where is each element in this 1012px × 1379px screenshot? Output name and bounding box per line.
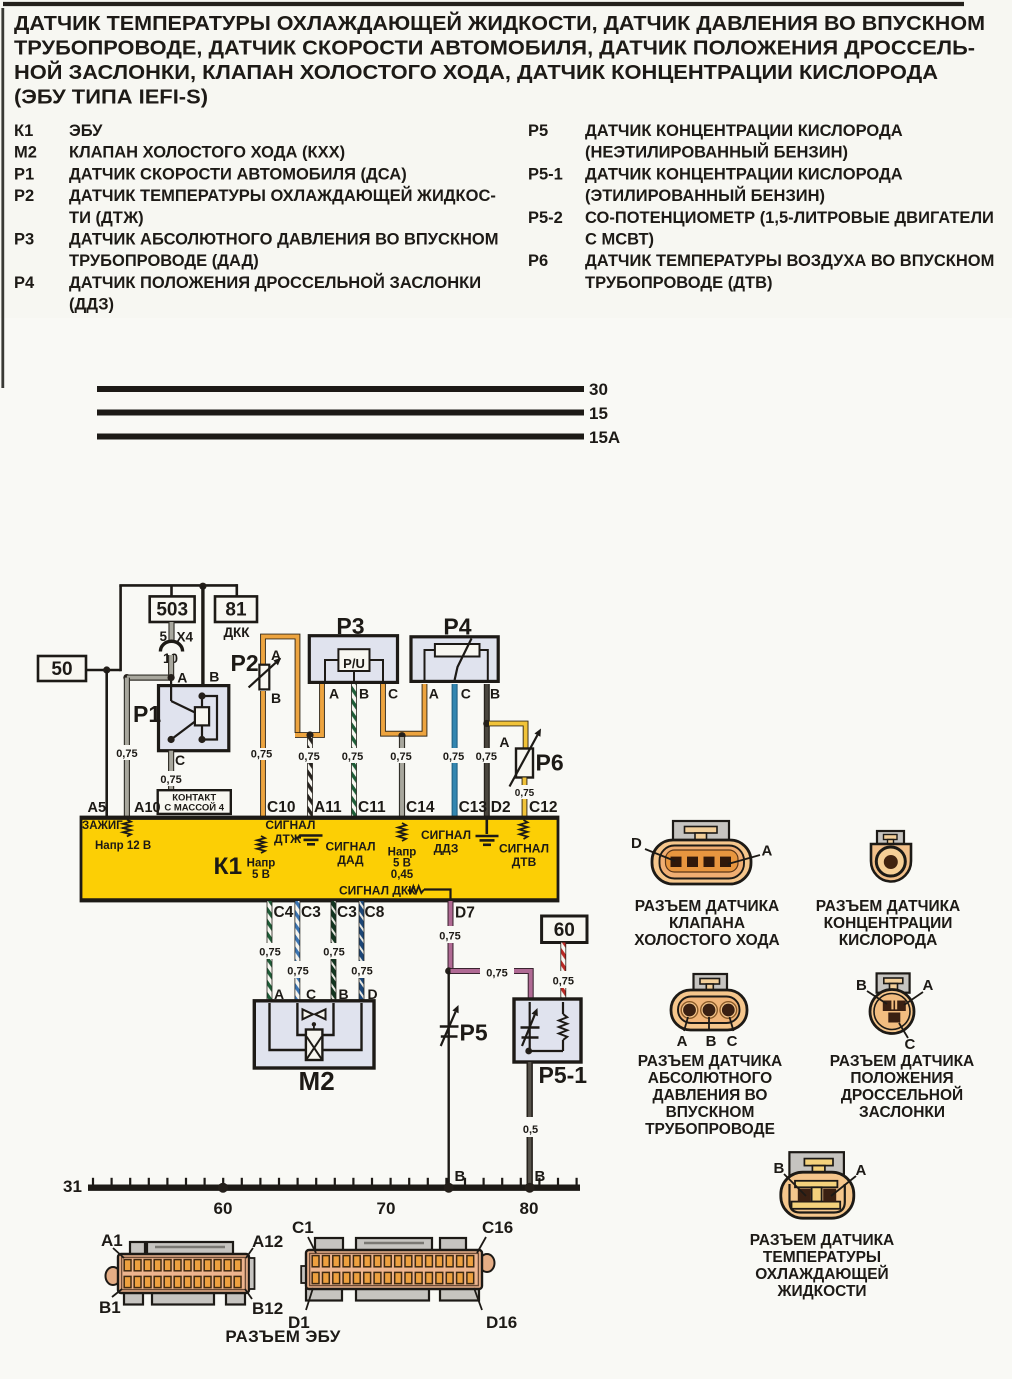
svg-text:C: C — [175, 752, 185, 768]
title block top border — [3, 2, 964, 6]
svg-text:81: 81 — [225, 600, 247, 621]
throttle position sensor P4 box — [411, 614, 498, 682]
wire A10 horizontal segment — [127, 674, 171, 680]
svg-text:A: A — [677, 1033, 688, 1050]
ECU pin labels below K1 — [274, 904, 475, 922]
ECU connector A/B block — [106, 1242, 250, 1305]
svg-text:B: B — [271, 690, 281, 706]
svg-text:B: B — [455, 1168, 466, 1185]
svg-text:15А: 15А — [589, 428, 620, 447]
svg-text:0,75: 0,75 — [439, 931, 460, 943]
svg-text:КИСЛОРОДА: КИСЛОРОДА — [839, 932, 938, 949]
svg-text:B12: B12 — [252, 1299, 283, 1318]
bus junction dot at 60 — [218, 1183, 228, 1193]
P1 internal transistor symbol — [168, 681, 218, 743]
svg-text:B: B — [359, 686, 369, 702]
svg-text:0,75: 0,75 — [515, 788, 535, 799]
idle air valve M2 box — [254, 1001, 374, 1096]
svg-text:ТРУБОПРОВОДЕ (ДТВ): ТРУБОПРОВОДЕ (ДТВ) — [585, 274, 773, 292]
wire C3 dark green striped (gap for label) — [331, 901, 337, 943]
legend right column — [528, 122, 994, 292]
svg-text:C: C — [905, 1036, 916, 1053]
MAP sensor connector pin labels — [677, 1033, 738, 1050]
wire A10 vertical to ECU (gap for label) — [124, 678, 130, 745]
P1 pin A dot — [168, 674, 175, 681]
svg-text:РАЗЪЕМ ДАТЧИКА: РАЗЪЕМ ДАТЧИКА — [830, 1053, 975, 1070]
wire C11 green striped from P3 pin B (gap for label) — [351, 684, 357, 748]
svg-text:ДАВЛЕНИЯ ВО: ДАВЛЕНИЯ ВО — [653, 1087, 768, 1104]
svg-text:0,75: 0,75 — [342, 751, 363, 763]
svg-text:Р5: Р5 — [528, 122, 548, 140]
svg-text:КЛАПАНА: КЛАПАНА — [669, 915, 745, 932]
wire D7 violet (gap for label) — [448, 901, 454, 926]
ECU connector A/B side tab — [249, 1258, 255, 1289]
svg-text:0,75: 0,75 — [287, 966, 308, 978]
svg-text:0,75: 0,75 — [116, 748, 137, 760]
ECU connector C/D side tab — [301, 1266, 306, 1283]
svg-text:Р5-1: Р5-1 — [528, 165, 563, 183]
ECU pin labels top row — [88, 799, 558, 816]
wire C10 orange upper run — [260, 760, 266, 817]
K1 internal resistor on C12 — [520, 820, 528, 839]
svg-text:К1: К1 — [214, 853, 243, 880]
svg-text:Р4: Р4 — [443, 614, 471, 640]
svg-text:C: C — [306, 986, 316, 1002]
svg-text:C1: C1 — [292, 1218, 314, 1237]
svg-text:0,75: 0,75 — [390, 751, 411, 763]
K1 internal resistor on C10 — [257, 836, 265, 853]
node A11 junction dot — [306, 731, 313, 738]
svg-text:ВПУСКНОМ: ВПУСКНОМ — [666, 1104, 755, 1121]
svg-text:B: B — [774, 1160, 785, 1177]
svg-text:ДТВ: ДТВ — [512, 855, 537, 869]
svg-text:Р3: Р3 — [336, 613, 364, 639]
wire P5 vertical thin — [448, 971, 450, 1185]
oxygen sensor connector caption — [816, 898, 961, 949]
K1 internal wire to D7 — [424, 890, 451, 901]
svg-text:ТРУБОПРОВОДЕ, ДАТЧИК СКОРОСТИ: ТРУБОПРОВОДЕ, ДАТЧИК СКОРОСТИ АВТОМОБИЛЯ… — [14, 37, 975, 60]
svg-text:СИГНАЛ: СИГНАЛ — [265, 818, 315, 832]
svg-text:РАЗЪЕМ ДАТЧИКА: РАЗЪЕМ ДАТЧИКА — [635, 898, 780, 915]
svg-text:A1: A1 — [101, 1231, 123, 1250]
svg-text:Напр 12 В: Напр 12 В — [95, 840, 151, 852]
svg-text:A: A — [762, 843, 773, 860]
svg-text:С10: С10 — [267, 799, 295, 816]
bus 31 tick marks — [93, 1178, 577, 1185]
svg-text:А10: А10 — [134, 800, 161, 816]
node D7 to P5 junction dot — [445, 967, 452, 974]
svg-text:НОЙ ЗАСЛОНКИ, КЛАПАН ХОЛОСТОГО: НОЙ ЗАСЛОНКИ, КЛАПАН ХОЛОСТОГО ХОДА, ДАТ… — [14, 60, 938, 84]
svg-text:ТЕМПЕРАТУРЫ: ТЕМПЕРАТУРЫ — [763, 1249, 881, 1266]
svg-text:0,75: 0,75 — [443, 751, 464, 763]
svg-text:СИГНАЛ: СИГНАЛ — [421, 828, 471, 842]
svg-text:Р5-2: Р5-2 — [528, 209, 563, 227]
svg-text:C: C — [388, 686, 398, 702]
svg-text:ДАТЧИК ПОЛОЖЕНИЯ ДРОССЕЛЬНОЙ З: ДАТЧИК ПОЛОЖЕНИЯ ДРОССЕЛЬНОЙ ЗАСЛОНКИ — [69, 273, 481, 292]
svg-text:P/U: P/U — [343, 656, 365, 671]
wire B of P1 sensor — [201, 585, 204, 686]
svg-text:D16: D16 — [486, 1313, 517, 1332]
svg-text:АБСОЛЮТНОГО: АБСОЛЮТНОГО — [648, 1070, 772, 1087]
wire from fuse 50 to node A5 — [86, 669, 121, 672]
svg-text:СИГНАЛ ДКК: СИГНАЛ ДКК — [339, 884, 416, 898]
terminal box 50 — [38, 656, 86, 681]
MAP sensor connector caption — [638, 1053, 783, 1138]
ECU connector A/B leader lines and labels — [99, 1231, 283, 1318]
svg-text:СИГНАЛ: СИГНАЛ — [326, 840, 376, 854]
svg-text:ТРУБОПРОВОДЕ: ТРУБОПРОВОДЕ — [645, 1121, 775, 1138]
svg-text:60: 60 — [554, 920, 575, 941]
svg-text:РАЗЪЕМ ДАТЧИКА: РАЗЪЕМ ДАТЧИКА — [816, 898, 961, 915]
P4 internal potentiometer — [425, 639, 488, 681]
oxygen sensor connector drawing — [871, 831, 911, 882]
M2 internal valve symbol — [303, 1009, 326, 1060]
legend left column — [14, 122, 499, 314]
svg-text:ДТЖ: ДТЖ — [274, 832, 301, 846]
svg-text:ДРОССЕЛЬНОЙ: ДРОССЕЛЬНОЙ — [841, 1086, 963, 1104]
svg-text:503: 503 — [156, 600, 188, 621]
svg-text:B: B — [706, 1033, 717, 1050]
svg-text:B: B — [490, 686, 500, 702]
svg-text:С4: С4 — [274, 904, 294, 921]
svg-text:С11: С11 — [358, 799, 386, 816]
svg-text:B: B — [209, 669, 219, 685]
svg-text:D: D — [631, 835, 642, 852]
wire from P5-1 to bus 31 (gap for label) — [527, 1062, 533, 1117]
svg-text:С12: С12 — [529, 799, 557, 816]
svg-text:A: A — [177, 670, 187, 686]
air temp sensor P6 (variable resistor) — [499, 729, 563, 787]
svg-text:0,75: 0,75 — [553, 976, 574, 988]
svg-text:0,75: 0,75 — [251, 749, 272, 761]
coolant temp connector caption — [750, 1232, 895, 1300]
svg-text:A: A — [329, 686, 339, 702]
svg-text:С МАССОЙ 4: С МАССОЙ 4 — [164, 802, 224, 814]
svg-text:0,75: 0,75 — [351, 966, 372, 978]
oxygen sensor P5-1 box — [514, 999, 587, 1088]
wire C13 teal from P4 pin C (gap for label) — [452, 684, 458, 748]
top rail wire — [119, 584, 237, 587]
svg-text:A: A — [856, 1162, 867, 1179]
svg-text:15: 15 — [589, 404, 608, 423]
wire D2 dark from P4 pin B (gap for label) — [484, 684, 490, 748]
bus junction dot at P5-1 — [525, 1183, 535, 1193]
ground contact box KONTAKT S MASSOY 4 — [158, 790, 231, 814]
svg-text:0,75: 0,75 — [298, 751, 319, 763]
svg-text:СИГНАЛ: СИГНАЛ — [499, 842, 549, 856]
bus bar 15 — [97, 410, 584, 416]
svg-text:5 В: 5 В — [393, 858, 411, 870]
svg-text:ДАТЧИК ТЕМПЕРАТУРЫ ОХЛАЖДАЮЩЕЙ: ДАТЧИК ТЕМПЕРАТУРЫ ОХЛАЖДАЮЩЕЙ ЖИДКОСТИ,… — [14, 11, 985, 35]
svg-text:ДАД: ДАД — [337, 853, 364, 867]
bus junction dot at P5 — [444, 1183, 454, 1193]
svg-text:ДАТЧИК АБСОЛЮТНОГО ДАВЛЕНИЯ ВО: ДАТЧИК АБСОЛЮТНОГО ДАВЛЕНИЯ ВО ВПУСКНОМ — [69, 231, 499, 249]
wire A11 striped to ECU (gap for label) — [307, 737, 313, 748]
svg-text:Р3: Р3 — [14, 231, 34, 249]
svg-text:B: B — [339, 986, 349, 1002]
svg-text:(ЭТИЛИРОВАННЫЙ БЕНЗИН): (ЭТИЛИРОВАННЫЙ БЕНЗИН) — [585, 186, 825, 205]
svg-text:0,75: 0,75 — [323, 947, 344, 959]
svg-text:С8: С8 — [365, 904, 385, 921]
svg-text:С3: С3 — [337, 904, 357, 921]
P3 internal P/U unit — [325, 649, 383, 682]
svg-text:A: A — [923, 977, 934, 994]
node A5 junction dot — [103, 666, 110, 673]
svg-text:A: A — [274, 986, 284, 1002]
svg-text:ЗАЖИГ.: ЗАЖИГ. — [82, 820, 124, 832]
svg-text:0,75: 0,75 — [259, 947, 280, 959]
svg-text:B: B — [856, 977, 867, 994]
page left edge line — [1, 8, 4, 388]
svg-text:30: 30 — [589, 380, 608, 399]
MAP sensor connector drawing — [671, 974, 747, 1031]
svg-text:ДАТЧИК ТЕМПЕРАТУРЫ ВОЗДУХА ВО: ДАТЧИК ТЕМПЕРАТУРЫ ВОЗДУХА ВО ВПУСКНОМ — [585, 252, 994, 270]
svg-text:C: C — [727, 1033, 738, 1050]
M2 pin letters — [274, 986, 378, 1002]
P5-1 internal resistor element — [529, 1002, 567, 1051]
svg-text:D2: D2 — [491, 799, 511, 816]
svg-text:Р4: Р4 — [14, 274, 35, 292]
svg-text:РАЗЪЕМ ЭБУ: РАЗЪЕМ ЭБУ — [225, 1327, 340, 1346]
idle valve connector drawing — [652, 821, 751, 884]
ECU K1 box — [81, 817, 558, 901]
svg-text:ДКК: ДКК — [223, 625, 250, 640]
wire C from P1 (gap for label) — [168, 751, 174, 771]
svg-text:ДАТЧИК КОНЦЕНТРАЦИИ КИСЛОРОДА: ДАТЧИК КОНЦЕНТРАЦИИ КИСЛОРОДА — [585, 165, 903, 183]
svg-text:A: A — [271, 647, 281, 663]
svg-text:A: A — [499, 734, 509, 750]
svg-text:С14: С14 — [406, 799, 435, 816]
svg-text:С3: С3 — [301, 904, 321, 921]
wire C8 dark blue striped (gap for label) — [359, 901, 365, 961]
svg-text:С13: С13 — [459, 799, 488, 816]
wire C3 blue striped (gap for label) — [294, 901, 300, 961]
svg-text:Р5-1: Р5-1 — [539, 1062, 588, 1088]
svg-text:А11: А11 — [314, 799, 342, 816]
svg-text:ОХЛАЖДАЮЩЕЙ: ОХЛАЖДАЮЩЕЙ — [755, 1265, 888, 1283]
svg-text:Р2: Р2 — [231, 650, 259, 676]
svg-text:D7: D7 — [455, 905, 475, 922]
svg-text:Напр: Напр — [247, 858, 276, 870]
title text — [14, 11, 985, 109]
svg-text:A: A — [429, 686, 439, 702]
wire from node D2 to P6 (yellow) — [489, 724, 526, 750]
svg-text:ПОЛОЖЕНИЯ: ПОЛОЖЕНИЯ — [850, 1070, 953, 1087]
svg-text:0,45: 0,45 — [391, 869, 414, 881]
svg-text:70: 70 — [377, 1199, 396, 1218]
svg-text:ДАТЧИК КОНЦЕНТРАЦИИ КИСЛОРОДА: ДАТЧИК КОНЦЕНТРАЦИИ КИСЛОРОДА — [585, 122, 903, 140]
svg-text:ТРУБОПРОВОДЕ (ДАД): ТРУБОПРОВОДЕ (ДАД) — [69, 252, 259, 270]
ECU connector C/D leader lines and labels — [288, 1218, 517, 1332]
M2 internal winding circuit — [270, 1003, 362, 1050]
svg-text:0,75: 0,75 — [476, 751, 497, 763]
bus 31 bar — [88, 1184, 580, 1190]
svg-text:B1: B1 — [99, 1298, 121, 1317]
svg-text:80: 80 — [520, 1199, 539, 1218]
svg-text:Р6: Р6 — [536, 750, 564, 776]
svg-text:С МСВТ): С МСВТ) — [585, 231, 654, 249]
terminal box 81 DKK — [215, 596, 257, 640]
svg-text:А5: А5 — [88, 800, 107, 816]
speed sensor P1 box — [133, 686, 229, 751]
wire red striped from 60 (gap for label) — [560, 943, 566, 972]
svg-text:КЛАПАН ХОЛОСТОГО ХОДА (КХХ): КЛАПАН ХОЛОСТОГО ХОДА (КХХ) — [69, 144, 345, 162]
svg-text:A12: A12 — [252, 1232, 283, 1251]
P5-1 internal sensor element — [521, 1002, 540, 1054]
svg-text:D: D — [368, 986, 378, 1002]
svg-text:ДАТЧИК СКОРОСТИ АВТОМОБИЛЯ (ДС: ДАТЧИК СКОРОСТИ АВТОМОБИЛЯ (ДСА) — [69, 165, 407, 183]
svg-text:0,5: 0,5 — [523, 1124, 538, 1136]
wire C14 gray to ECU (gap for label) — [399, 737, 405, 748]
svg-text:ДАТЧИК ТЕМПЕРАТУРЫ ОХЛАЖДАЮЩЕЙ: ДАТЧИК ТЕМПЕРАТУРЫ ОХЛАЖДАЮЩЕЙ ЖИДКОС- — [69, 186, 496, 205]
node junction on top rail — [199, 583, 206, 590]
svg-text:Р6: Р6 — [528, 252, 548, 270]
terminal box 60 — [542, 916, 587, 943]
wire from connector X4 to P1 pin A — [168, 655, 174, 678]
svg-text:0,75: 0,75 — [486, 968, 507, 980]
svg-text:Р1: Р1 — [133, 701, 161, 727]
wire stub to terminal 503 — [170, 585, 173, 596]
connector X4 pin labels 5 and X4 — [168, 622, 174, 642]
bus bar 30 — [97, 386, 584, 392]
svg-text:C: C — [461, 686, 471, 702]
svg-text:К1: К1 — [14, 122, 33, 140]
MAP sensor P3 box — [309, 613, 397, 682]
K1 ground symbol for DTZh — [296, 837, 301, 839]
svg-text:Р1: Р1 — [14, 165, 34, 183]
K1 ground symbol for D2 — [485, 817, 488, 834]
ECU connector C/D block — [306, 1238, 495, 1301]
K1 internal resistor on A10 — [123, 820, 131, 837]
svg-text:(ЭБУ ТИПА IEFI-S): (ЭБУ ТИПА IEFI-S) — [14, 86, 208, 109]
svg-text:Р5: Р5 — [460, 1020, 488, 1046]
node junction P4-B to P6 — [483, 720, 490, 727]
svg-text:C16: C16 — [482, 1218, 513, 1237]
throttle sensor connector drawing — [870, 973, 914, 1033]
coolant temp sensor P2 (variable resistor) — [231, 637, 298, 734]
terminal box 503 — [150, 596, 195, 622]
oxygen sensor P5 symbol — [440, 1005, 488, 1046]
svg-text:Р2: Р2 — [14, 187, 34, 205]
svg-text:ЖИДКОСТИ: ЖИДКОСТИ — [776, 1283, 866, 1300]
svg-text:50: 50 — [51, 659, 72, 680]
node A10 corner dot — [123, 674, 130, 681]
wire riser to top rail — [119, 585, 122, 671]
svg-text:ЭБУ: ЭБУ — [69, 122, 103, 140]
K1 internal resistor on C14 — [398, 823, 406, 841]
svg-text:60: 60 — [214, 1199, 233, 1218]
svg-text:31: 31 — [63, 1177, 82, 1196]
svg-text:М2: М2 — [14, 144, 37, 162]
bus bar 15A — [97, 434, 584, 440]
throttle sensor connector caption — [830, 1053, 975, 1121]
svg-text:5 В: 5 В — [252, 869, 270, 881]
node C14 junction dot — [398, 732, 405, 739]
svg-text:М2: М2 — [299, 1066, 335, 1096]
coolant temp connector drawing — [781, 1152, 854, 1218]
svg-text:(НЕЭТИЛИРОВАННЫЙ БЕНЗИН): (НЕЭТИЛИРОВАННЫЙ БЕНЗИН) — [585, 143, 848, 162]
wire drop to terminal 81 — [236, 584, 239, 596]
wire C12 yellow from P6 (gap for label) — [522, 778, 528, 786]
wire C4 green striped (gap for label) — [267, 901, 273, 943]
svg-text:ЗАСЛОНКИ: ЗАСЛОНКИ — [859, 1104, 945, 1121]
svg-text:ДДЗ: ДДЗ — [434, 842, 459, 856]
connector X4 arc symbol pin 10 — [160, 641, 182, 651]
svg-text:ХОЛОСТОГО ХОДА: ХОЛОСТОГО ХОДА — [634, 932, 779, 949]
svg-text:ТИ (ДТЖ): ТИ (ДТЖ) — [69, 209, 144, 227]
svg-text:РАЗЪЕМ ДАТЧИКА: РАЗЪЕМ ДАТЧИКА — [750, 1232, 895, 1249]
wire from P2 to node A11 and P3 pin A — [295, 684, 322, 735]
wire A5 to ECU — [105, 670, 108, 817]
svg-text:(ДДЗ): (ДДЗ) — [69, 296, 114, 314]
idle valve connector caption — [634, 898, 779, 949]
svg-text:СО-ПОТЕНЦИОМЕТР (1,5-ЛИТРОВЫЕ: СО-ПОТЕНЦИОМЕТР (1,5-ЛИТРОВЫЕ ДВИГАТЕЛИ — [585, 209, 994, 227]
svg-text:КОНЦЕНТРАЦИИ: КОНЦЕНТРАЦИИ — [824, 915, 953, 932]
wire violet from node to P5-1 (gap for label) — [451, 968, 481, 974]
svg-text:0,75: 0,75 — [160, 774, 181, 786]
wire from P3 pin C to node C14 and P4 pin A — [383, 684, 425, 734]
svg-text:РАЗЪЕМ ДАТЧИКА: РАЗЪЕМ ДАТЧИКА — [638, 1053, 783, 1070]
